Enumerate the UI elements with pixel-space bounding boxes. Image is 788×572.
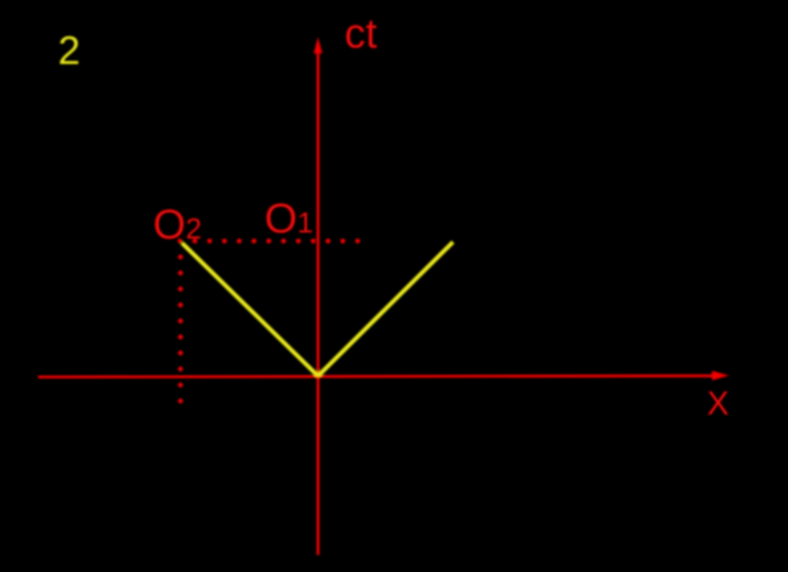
svg-text:ct: ct: [345, 10, 378, 57]
svg-text:2: 2: [58, 29, 80, 73]
ct axis arrowhead: [314, 37, 323, 54]
x axis: [38, 376, 716, 377]
light cone left branch: [182, 243, 318, 376]
ct axis: [317, 50, 320, 555]
svg-text:X: X: [707, 385, 729, 422]
light cone right branch: [318, 242, 453, 376]
dotted line vertical from O2 down past x axis: [178, 255, 183, 404]
x axis arrowhead: [712, 371, 729, 381]
dotted line horizontal from O2 to past ct axis: [178, 239, 360, 244]
